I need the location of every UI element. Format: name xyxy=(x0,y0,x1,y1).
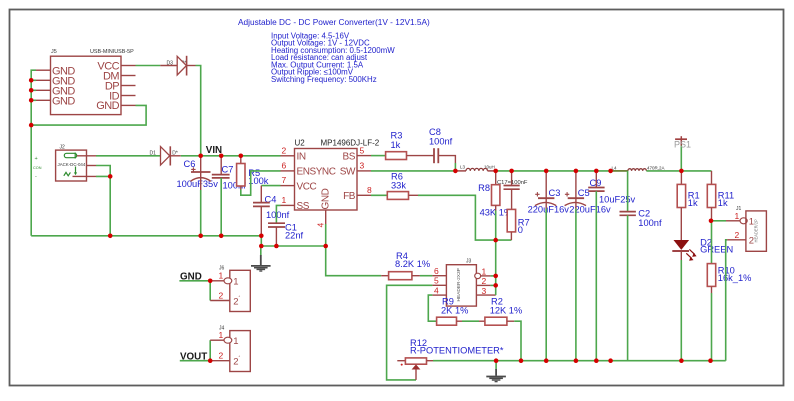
junction gnd earth xyxy=(259,244,264,249)
junction jack gnd rail xyxy=(108,234,113,239)
wire SS row xyxy=(276,205,280,223)
junction bottom stub xyxy=(608,358,613,363)
junction bottom R2 xyxy=(519,358,524,363)
svg-text:3: 3 xyxy=(482,286,487,296)
svg-text:1k: 1k xyxy=(718,198,728,208)
svg-text:2: 2 xyxy=(282,145,287,155)
wire FB node xyxy=(418,195,511,240)
potentiometer R12 xyxy=(397,338,504,380)
resistor R6 xyxy=(371,172,418,200)
capacitor C7 xyxy=(212,156,246,236)
svg-text:2: 2 xyxy=(219,350,224,360)
capacitor C8 xyxy=(429,127,455,171)
wire FB column to header pins xyxy=(490,275,495,277)
connector J6 xyxy=(210,266,250,312)
svg-text:GND: GND xyxy=(96,100,119,112)
svg-text:8: 8 xyxy=(367,185,372,195)
wire jack mid pin xyxy=(96,166,110,177)
svg-text:1: 1 xyxy=(219,271,224,281)
wire usb gnd stubs xyxy=(31,80,36,100)
svg-text:C3: C3 xyxy=(549,188,561,198)
svg-text:-: - xyxy=(35,174,37,180)
ground earth symbol left xyxy=(251,246,271,271)
svg-text:22nf: 22nf xyxy=(285,231,304,241)
wire inductor lead overlap xyxy=(613,170,628,172)
svg-text:6: 6 xyxy=(434,266,439,276)
svg-text:1k: 1k xyxy=(688,198,698,208)
svg-text:HEADER/2P: HEADER/2P xyxy=(754,219,759,242)
wire GND to J6 pin2 xyxy=(209,281,211,301)
svg-text:1: 1 xyxy=(282,195,287,205)
svg-text:PS1: PS1 xyxy=(674,140,691,150)
svg-text:SS: SS xyxy=(297,201,310,212)
junction FB J3 pin2 xyxy=(493,283,498,288)
resistor R2 xyxy=(479,296,522,325)
svg-text:10uF25v: 10uF25v xyxy=(599,195,636,205)
diode D1 xyxy=(150,146,181,165)
probe PS1 xyxy=(674,136,691,171)
svg-text:12K 1%: 12K 1% xyxy=(490,306,523,316)
junction gnd C6 xyxy=(198,234,203,239)
junction bottom C5 xyxy=(574,358,579,363)
junction GND label J6 xyxy=(208,279,213,284)
svg-text:L3: L3 xyxy=(460,164,466,169)
svg-text:Adjustable DC - DC Power Conve: Adjustable DC - DC Power Converter(1V - … xyxy=(238,17,430,27)
svg-text:C7: C7 xyxy=(222,165,234,175)
junction R11 J1 xyxy=(709,219,714,224)
capacitor C5 xyxy=(565,171,611,361)
junction usb gnd loop xyxy=(29,123,34,128)
wire VCC row xyxy=(261,185,280,187)
capacitor C6 xyxy=(177,156,219,236)
capacitor C4 xyxy=(253,186,290,236)
svg-text:4: 4 xyxy=(316,223,326,228)
svg-text:100nf: 100nf xyxy=(638,218,662,228)
wire U2 gnd pin to rail xyxy=(325,224,327,246)
junction gnd C7 xyxy=(219,234,224,239)
junction gnd C4 xyxy=(259,234,264,239)
resistor R5 xyxy=(237,156,269,190)
junction bottom earth xyxy=(494,358,499,363)
svg-text:1: 1 xyxy=(735,211,740,221)
ground earth symbol bottom xyxy=(486,361,506,382)
junction VOUT R1 xyxy=(679,169,684,174)
resistor R1 xyxy=(677,171,699,241)
svg-text:SW: SW xyxy=(340,167,356,178)
junction bottom D2 xyxy=(679,358,684,363)
svg-text:JACK-DC-044: JACK-DC-044 xyxy=(58,162,86,167)
wire D3 out down to VIN xyxy=(196,66,201,156)
svg-text:1k: 1k xyxy=(391,140,401,150)
net label VOUT xyxy=(180,351,210,362)
op-amp U2 MP1496DJ-LF-2 xyxy=(281,139,380,228)
junction FB node xyxy=(493,238,498,243)
svg-text:R-POTENTIOMETER*: R-POTENTIOMETER* xyxy=(410,345,504,355)
svg-text:0: 0 xyxy=(518,225,523,235)
junction VIN R5 xyxy=(239,154,244,159)
junction VOUT C3 xyxy=(544,169,549,174)
svg-text:100nf: 100nf xyxy=(429,136,453,146)
wire output rail xyxy=(496,170,628,172)
connector J4 xyxy=(210,326,250,372)
connector J5 USB-MINIUSB-5P xyxy=(36,49,136,115)
svg-text:2: 2 xyxy=(749,236,754,247)
svg-text:°: ° xyxy=(239,355,241,360)
junction VOUT C9 xyxy=(594,169,599,174)
wire J4 pin1 loop xyxy=(209,340,211,361)
junction VOUT label J4 xyxy=(208,358,213,363)
svg-text:GREEN: GREEN xyxy=(700,245,733,255)
svg-text:1: 1 xyxy=(233,336,238,347)
inductor L4 xyxy=(612,166,665,171)
wire jack sleeve to gnd rail xyxy=(96,176,110,235)
svg-text:220uF16v: 220uF16v xyxy=(528,205,570,215)
junction gnd C1 xyxy=(274,244,279,249)
resistor R3 xyxy=(371,131,434,160)
svg-text:6: 6 xyxy=(282,161,287,171)
junction usb gnd pin3 xyxy=(29,88,34,93)
info text block xyxy=(271,31,395,84)
svg-text:4: 4 xyxy=(434,286,439,296)
resistor R7 xyxy=(507,209,529,240)
svg-text:BS: BS xyxy=(343,151,356,162)
svg-text:1: 1 xyxy=(219,330,224,340)
svg-text:16k_1%: 16k_1% xyxy=(718,273,752,283)
capacitor C3 xyxy=(528,171,570,361)
wire R9 to R2 xyxy=(462,320,479,322)
svg-text:U2: U2 xyxy=(295,139,306,148)
svg-text:J3: J3 xyxy=(466,259,472,265)
wire rail after L4 xyxy=(646,170,711,172)
wire vcc to D3 xyxy=(136,65,161,67)
LED D2 xyxy=(672,238,733,361)
junction bottom R10 xyxy=(708,358,713,363)
svg-text:470R,2A: 470R,2A xyxy=(647,166,665,171)
wire header pin4 down to R9 xyxy=(428,295,436,321)
junction VOUT L4 xyxy=(608,169,613,174)
connector J1 HEADER/2P xyxy=(726,206,766,251)
capacitor C1 xyxy=(268,223,304,247)
junction usb gnd pin4 xyxy=(29,98,34,103)
junction bottom C3 xyxy=(544,358,549,363)
junction gnd U2 xyxy=(323,244,328,249)
resistor R4 xyxy=(381,251,432,280)
diode D3 xyxy=(160,56,195,76)
junction VOUT R8 xyxy=(493,169,498,174)
wire R11 to J1 pin1 xyxy=(712,220,727,222)
svg-text:1: 1 xyxy=(233,276,238,287)
svg-text:ENSYNC: ENSYNC xyxy=(297,167,336,178)
svg-text:GND: GND xyxy=(321,188,332,209)
resistor R9 xyxy=(437,296,469,325)
svg-text:2: 2 xyxy=(735,230,740,240)
svg-text:7: 7 xyxy=(282,175,287,185)
net label GND xyxy=(179,272,210,283)
junction VIN D3/C6 xyxy=(198,154,203,159)
resistor R10 xyxy=(707,221,751,361)
svg-text:MP1496DJ-LF-2: MP1496DJ-LF-2 xyxy=(321,139,380,148)
svg-text:2: 2 xyxy=(482,276,487,286)
svg-text:+: + xyxy=(35,156,38,162)
svg-text:C2: C2 xyxy=(638,209,650,219)
svg-text:C5: C5 xyxy=(578,188,590,198)
svg-text:3: 3 xyxy=(360,161,365,171)
wire U2 gnd column down to R4 xyxy=(326,246,382,276)
resistor R11 xyxy=(707,171,734,221)
svg-text:R8: R8 xyxy=(478,183,490,193)
inductor L3 xyxy=(455,164,495,171)
svg-text:VCC: VCC xyxy=(297,181,317,192)
wire SW row xyxy=(371,170,455,172)
junction jack sleeve xyxy=(108,174,113,179)
connector J2 JACK-DC-044 xyxy=(33,145,96,181)
wire R2 down to bottom rail xyxy=(514,321,521,361)
svg-text:IN: IN xyxy=(297,151,306,162)
svg-text:CON: CON xyxy=(33,166,42,170)
connector J3 HEADER-2X3P xyxy=(432,259,495,307)
svg-text:5: 5 xyxy=(434,276,439,286)
capacitor C2 xyxy=(620,171,662,361)
svg-text:USB-MINIUSB-5P: USB-MINIUSB-5P xyxy=(90,49,134,55)
junction VOUT C5 xyxy=(574,169,579,174)
svg-text:HEADER-2X3P: HEADER-2X3P xyxy=(456,268,462,301)
wire J1 pin2 down to bottom rail xyxy=(726,240,727,361)
svg-text:D1: D1 xyxy=(150,150,157,156)
wire usb gnd left column xyxy=(31,70,36,236)
svg-text:GND: GND xyxy=(52,95,75,107)
junction usb gnd pin2 xyxy=(29,78,34,83)
svg-text:2: 2 xyxy=(219,291,224,301)
svg-text:100uF35v: 100uF35v xyxy=(177,179,219,189)
wire usb gnd right loop xyxy=(31,105,146,125)
svg-text:J5: J5 xyxy=(51,49,57,55)
svg-text:2K 1%: 2K 1% xyxy=(441,306,468,316)
wire VIN rail xyxy=(181,155,281,157)
junction VOUT C17 xyxy=(509,169,514,174)
junction SW C8 xyxy=(453,169,458,174)
svg-text:°: ° xyxy=(239,295,241,300)
wire header pin5 to pot wiper xyxy=(387,285,433,380)
resistor R8 xyxy=(478,171,512,240)
svg-text:Switching Frequency: 500KHz: Switching Frequency: 500KHz xyxy=(271,75,377,84)
svg-text:1: 1 xyxy=(482,266,487,276)
wire jack tip to D1 xyxy=(96,155,161,157)
svg-text:5: 5 xyxy=(360,145,365,155)
junction FB J3 pin1 xyxy=(493,274,498,279)
svg-text:FB: FB xyxy=(343,191,356,202)
capacitor C17 xyxy=(497,171,528,210)
svg-text:100nf: 100nf xyxy=(266,210,290,220)
svg-text:1: 1 xyxy=(749,217,754,228)
capacitor C9 xyxy=(588,171,635,361)
svg-text:8.2K 1%: 8.2K 1% xyxy=(395,259,430,269)
wire bottom ground rail xyxy=(433,360,726,362)
wire R5 to ENSYNC xyxy=(241,171,281,195)
svg-text:C9: C9 xyxy=(590,178,602,188)
junction VIN C7 xyxy=(219,154,224,159)
wire bottom-left ground rail xyxy=(31,236,326,246)
junction bottom C9 xyxy=(594,358,599,363)
svg-text:33k: 33k xyxy=(391,181,406,191)
